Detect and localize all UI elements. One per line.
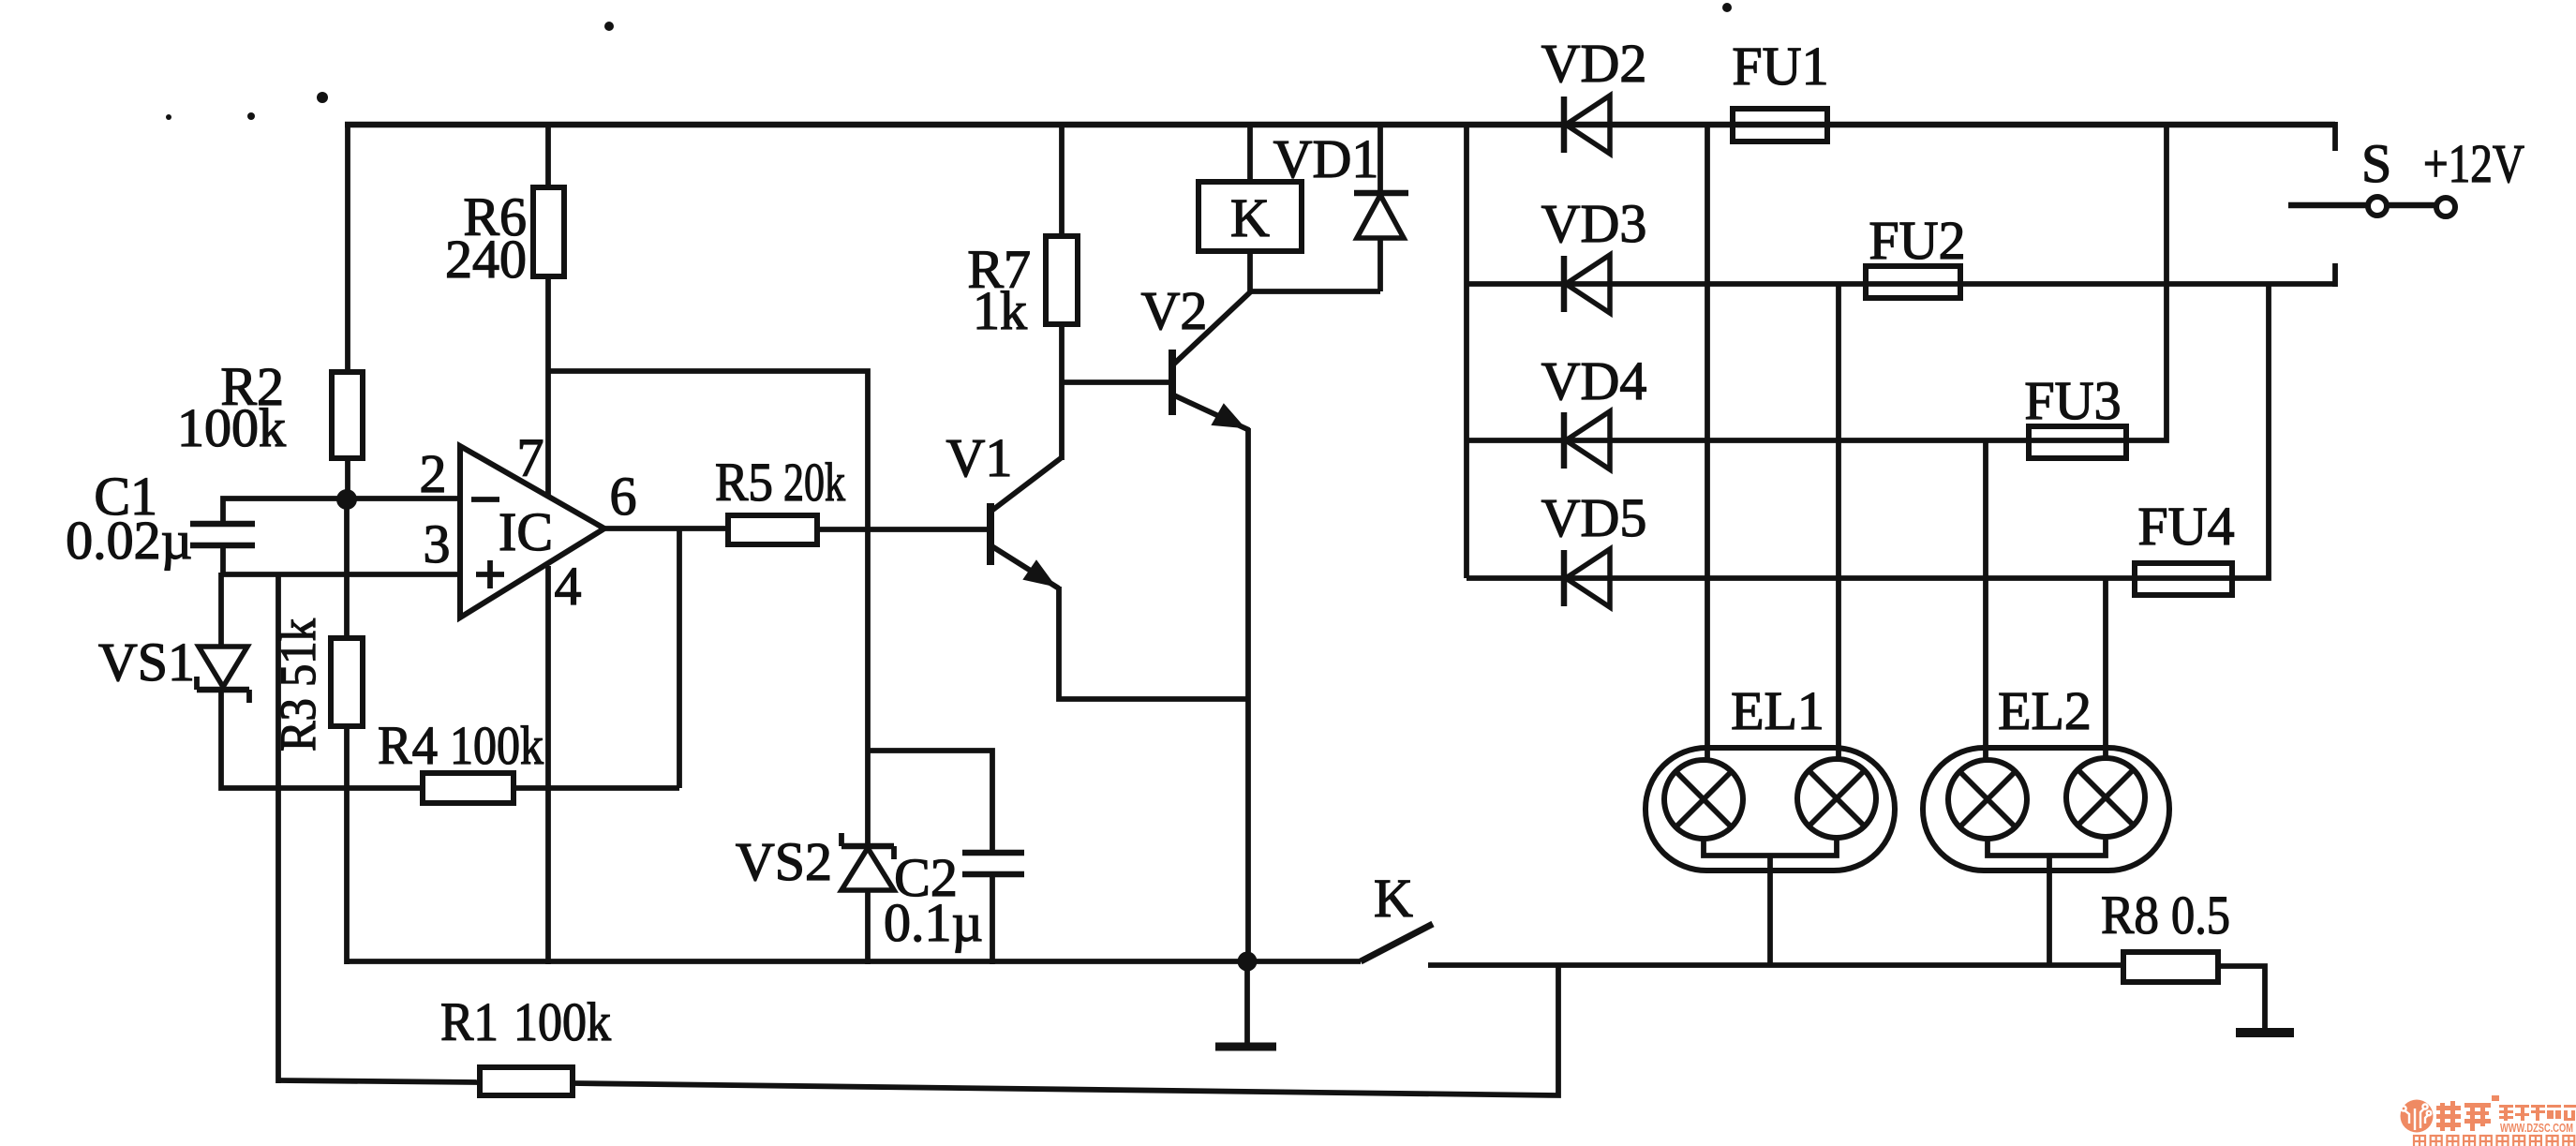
wire VD4 row <box>1467 125 2167 440</box>
scan speck <box>604 22 614 31</box>
svg-text:V1: V1 <box>946 427 1013 488</box>
wire C2 bottom to ground rail <box>990 874 995 964</box>
svg-text:FU3: FU3 <box>2024 370 2121 431</box>
fuse FU3 <box>2029 426 2126 458</box>
svg-text:0.02µ: 0.02µ <box>66 510 192 571</box>
svg-text:0.5: 0.5 <box>2171 885 2230 945</box>
svg-text:VD4: VD4 <box>1541 350 1647 411</box>
svg-text:0.1µ: 0.1µ <box>884 892 983 953</box>
lamp group EL1 <box>1645 748 1895 871</box>
svg-text:VS2: VS2 <box>736 831 832 892</box>
wire VS2 anode to ground rail <box>865 890 871 964</box>
ground symbol (R8) <box>2236 1028 2294 1037</box>
svg-text:R1: R1 <box>440 991 499 1052</box>
transistor V1 <box>987 503 994 565</box>
wire EL1 right feed <box>1836 284 1841 761</box>
op-amp plus input marker <box>476 572 504 577</box>
capacitor C1 <box>190 521 255 528</box>
svg-text:100k: 100k <box>450 715 543 776</box>
svg-text:FU4: FU4 <box>2137 496 2234 557</box>
svg-text:R4: R4 <box>378 715 438 776</box>
wire R4 right to feedback riser <box>514 785 679 791</box>
wire R3 bottom down to ground rail <box>344 726 350 964</box>
wire feedback riser to op-amp output <box>677 528 682 788</box>
svg-text:+12V: +12V <box>2423 133 2524 194</box>
svg-text:VD1: VD1 <box>1273 128 1379 189</box>
svg-text:VS1: VS1 <box>98 632 195 692</box>
svg-text:4: 4 <box>555 556 582 617</box>
wire op-amp output pin 6 <box>604 526 728 531</box>
wire EL2 internal bottom bar and tap <box>1988 837 2106 856</box>
svg-text:6: 6 <box>610 466 637 527</box>
svg-text:100k: 100k <box>177 397 286 458</box>
fuse FU1 <box>1733 109 1827 141</box>
resistor R3 <box>331 638 363 726</box>
wire R1 line right segment and riser to lamp rail <box>573 964 1558 1095</box>
wire branch to C2 <box>868 751 992 853</box>
wire VD5 row <box>1467 284 2269 578</box>
relay coil K <box>1199 182 1302 251</box>
wire R7 bottom to V1 collector <box>1059 324 1065 460</box>
wire ground drop <box>1244 961 1250 1043</box>
resistor R5 <box>728 515 817 544</box>
wire R8 to ground <box>2218 966 2265 1029</box>
diode VD5 <box>1561 550 1568 606</box>
wire lamp rail (right of contact) <box>1428 962 2123 968</box>
watermark logo <box>2401 1095 2576 1146</box>
svg-text:20k: 20k <box>783 452 845 513</box>
resistor R2 <box>332 372 363 458</box>
wire bus down to VD1 cathode <box>1377 125 1383 194</box>
node ground junction <box>1238 952 1258 972</box>
wire EL1 left feed <box>1705 125 1710 762</box>
resistor R6 <box>533 187 564 276</box>
zener diode VS1 <box>199 647 247 687</box>
capacitor C2 <box>962 850 1024 856</box>
wire diode block left rail <box>1464 125 1469 578</box>
wire VS1 cathode down and right to R4 <box>221 690 423 788</box>
wire VD3 row <box>1467 281 2335 287</box>
wire top +12V bus <box>345 122 2335 128</box>
diode VD2 <box>1561 97 1568 153</box>
wire pin3 node down to VS1 <box>218 573 224 648</box>
wire V2 base line <box>1062 380 1169 385</box>
wire bus end hook (to switch S) <box>2332 122 2338 151</box>
svg-text:IC: IC <box>499 501 553 562</box>
svg-text:240: 240 <box>445 229 527 290</box>
wire R2 bottom to node A <box>345 458 350 499</box>
wire supply tap from pin7 line to VS2 <box>548 371 868 846</box>
svg-text:V2: V2 <box>1141 280 1208 341</box>
wire V2 emitter down to ground node <box>1245 428 1251 962</box>
svg-text:100k: 100k <box>514 991 611 1052</box>
wire EL2 right feed <box>2103 578 2108 760</box>
diode VD3 <box>1561 256 1568 312</box>
fuse FU4 <box>2135 563 2232 595</box>
svg-text:R5: R5 <box>715 452 773 513</box>
svg-text:EL1: EL1 <box>1731 680 1824 741</box>
svg-text:S: S <box>2361 133 2391 194</box>
wire C1 top lead to node A and op-amp pin 2 <box>223 499 460 524</box>
node A junction (pin2 / C1 / R2 / R3) <box>336 489 357 510</box>
wire FU2 row end hook <box>2332 263 2338 287</box>
wire op-amp pin 3 line <box>221 572 460 577</box>
wire op-amp pin 4 down to ground rail <box>545 566 551 964</box>
fuse FU2 <box>1866 266 1960 298</box>
wire bus down to R7 <box>1059 125 1065 236</box>
resistor R8 <box>2123 952 2218 982</box>
svg-text:2: 2 <box>420 443 447 504</box>
wire bus down to relay coil K <box>1247 125 1253 182</box>
wire R6 bottom to op-amp pin 7 <box>545 276 551 496</box>
wire C1 bottom lead <box>220 545 226 574</box>
svg-text:FU1: FU1 <box>1732 36 1828 97</box>
wire node A down to R3 <box>344 499 350 638</box>
relay contact K arm <box>1361 924 1433 961</box>
switch S <box>2288 202 2369 209</box>
svg-text:VD3: VD3 <box>1541 193 1647 254</box>
wire EL2 left feed <box>1983 440 1988 762</box>
ground symbol (main) <box>1215 1043 1276 1051</box>
svg-text:VD2: VD2 <box>1541 33 1647 94</box>
svg-text:R3 51k: R3 51k <box>270 618 326 752</box>
zener diode VS2 <box>841 843 894 850</box>
op-amp U1 (IC) triangle <box>460 446 604 618</box>
transistor V2 <box>1169 350 1176 415</box>
svg-text:K: K <box>1230 187 1270 248</box>
svg-text:VD5: VD5 <box>1541 487 1647 548</box>
wire bus down to R6 <box>545 125 551 187</box>
wire relay bottom to VD1 anode <box>1250 251 1380 291</box>
resistor R7 <box>1046 236 1078 324</box>
svg-text:K: K <box>1374 868 1413 929</box>
svg-text:WWW.DZSC.COM: WWW.DZSC.COM <box>2500 1122 2573 1135</box>
resistor R4 <box>423 773 514 803</box>
svg-text:3: 3 <box>424 513 451 574</box>
diode VD4 <box>1561 412 1568 469</box>
wire R5 to V1 base <box>817 527 987 532</box>
wire V1 emitter down and right to V2 emitter line <box>1059 587 1248 699</box>
diode VD1 <box>1354 190 1408 197</box>
wire R1 line left segment <box>278 1080 480 1082</box>
lamp group EL2 <box>1923 748 2169 871</box>
wire EL1 internal bottom bar and tap <box>1704 838 1837 856</box>
op-amp minus input marker <box>471 497 499 502</box>
wire ground rail <box>347 959 1361 964</box>
resistor R1 <box>480 1067 573 1095</box>
svg-text:R8: R8 <box>2101 885 2159 945</box>
svg-text:EL2: EL2 <box>1998 680 2092 741</box>
svg-text:7: 7 <box>517 427 544 488</box>
wire pin3 node down to R1 (left outer vertical) <box>275 574 281 1083</box>
svg-text:FU2: FU2 <box>1869 210 1965 271</box>
wire left drop from bus to R2 <box>345 123 350 372</box>
svg-text:1k: 1k <box>973 280 1027 341</box>
